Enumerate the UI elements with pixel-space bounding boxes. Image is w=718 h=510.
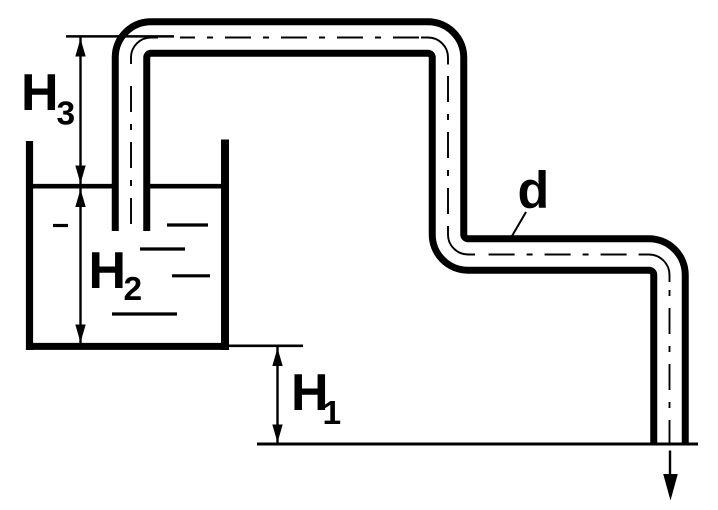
H2 bottom arrowhead	[75, 325, 85, 343]
outlet arrowhead	[663, 474, 678, 501]
pipe centerline outlet segment	[669, 281, 671, 444]
H1 dimension line	[276, 347, 278, 443]
pipe centerline bend arc middle-left	[448, 227, 475, 255]
tank bottom	[26, 343, 229, 350]
svg-text:H: H	[89, 242, 127, 300]
pipe centerline middle horizontal segment	[478, 254, 644, 256]
pipe centerline bend arc top-right	[421, 38, 448, 65]
water dash 2	[167, 223, 208, 226]
water dash 4	[172, 274, 210, 277]
H1 top arrowhead	[272, 348, 282, 366]
H2 top arrowhead	[75, 189, 85, 207]
outlet arrow shaft	[669, 451, 671, 481]
pipe centerline bend arc bottom-right	[642, 255, 670, 283]
svg-text:3: 3	[57, 96, 76, 133]
H3 top arrowhead	[75, 39, 85, 57]
H1 extension line from tank bottom	[229, 344, 303, 347]
svg-text:H: H	[21, 64, 59, 122]
bottom datum line	[257, 443, 698, 446]
pipe centerline top horizontal segment	[180, 37, 423, 39]
water dash 5	[112, 312, 177, 315]
svg-text:2: 2	[124, 271, 143, 308]
d leader line	[512, 212, 526, 236]
svg-text:d: d	[518, 162, 550, 220]
water dash 3	[140, 247, 185, 250]
H3 bottom arrowhead	[75, 166, 85, 184]
svg-text:1: 1	[323, 395, 342, 432]
H3-H2 dimension line	[79, 38, 81, 344]
siphon pipe outer wall	[131, 38, 670, 444]
pipe centerline dip segment	[130, 74, 132, 226]
water surface line	[33, 184, 221, 189]
pipe centerline right vertical segment	[447, 66, 449, 229]
pipe bore	[131, 38, 670, 444]
water dash 1	[53, 224, 68, 227]
tank right wall	[221, 140, 229, 351]
H3 extension line at pipe centerline level	[66, 35, 174, 38]
H1 bottom arrowhead	[272, 425, 282, 443]
tank left wall	[26, 141, 33, 350]
pipe centerline bend arc top-left	[131, 38, 158, 65]
